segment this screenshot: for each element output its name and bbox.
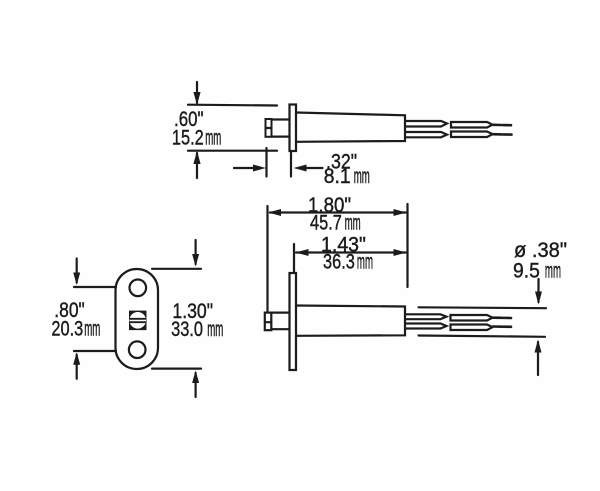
dim .60 bottom extension line bbox=[188, 150, 277, 152]
dim 1.30 down arrow bbox=[192, 240, 199, 267]
dim .32 left arrow bbox=[234, 165, 266, 172]
dim .32 right arrow bbox=[294, 165, 323, 172]
label 33.0mm bbox=[171, 317, 223, 341]
dim .32 right extension line bbox=[290, 152, 292, 177]
bottom view: wire 1 insulated segment 2 bbox=[451, 315, 493, 321]
top view: wire 1 insulated segment 1 bbox=[406, 121, 447, 127]
svg-text:mm: mm bbox=[354, 165, 370, 188]
label 8.1mm bbox=[324, 165, 370, 188]
dim .80 up arrow bbox=[73, 352, 80, 379]
svg-text:mm: mm bbox=[545, 260, 561, 283]
dim 1.80/1.43 right extension line bbox=[406, 204, 408, 287]
svg-text:36.3: 36.3 bbox=[323, 250, 355, 273]
top view: wire 2 insulated segment 2 bbox=[451, 132, 493, 138]
top view: wire 2 insulated segment 1 bbox=[406, 132, 447, 137]
svg-text:mm: mm bbox=[205, 127, 221, 150]
dim .32 left extension line bbox=[265, 148, 267, 177]
dim 1.80 left extension line bbox=[266, 206, 268, 311]
dim .80 bottom extension line bbox=[74, 350, 116, 352]
top view: flange bbox=[290, 105, 297, 152]
dim .60 up arrow bbox=[193, 151, 200, 178]
bottom view: flange bbox=[290, 273, 297, 370]
bottom view: nub end cap bbox=[265, 313, 272, 331]
top view: nub stem bbox=[272, 120, 290, 137]
label 36.3mm bbox=[323, 250, 373, 274]
top view: wire 1 bare tip bbox=[493, 124, 512, 127]
dim dia .38 up arrow bbox=[535, 340, 542, 376]
svg-text:9.5: 9.5 bbox=[513, 260, 540, 283]
front view: flange plate outline bbox=[116, 269, 159, 369]
label 9.5mm bbox=[513, 260, 561, 283]
bottom view: wire 1 bare tip bbox=[493, 316, 511, 319]
top view: body bbox=[296, 113, 405, 142]
svg-text:mm: mm bbox=[357, 251, 373, 274]
top view: nub end cap bbox=[266, 119, 272, 137]
bottom view: wire 1 insulated segment 1 bbox=[406, 314, 447, 319]
label 45.7mm bbox=[310, 211, 361, 235]
dim 1.43 left extension line bbox=[293, 244, 295, 272]
svg-text:20.3: 20.3 bbox=[51, 317, 83, 340]
top view: wire 1 insulated segment 2 bbox=[451, 122, 493, 128]
svg-text:45.7: 45.7 bbox=[310, 211, 342, 234]
bottom view: wire 2 insulated segment 2 bbox=[451, 325, 493, 331]
front view: center screw boss bbox=[129, 311, 147, 331]
top view: wire 2 bare tip bbox=[493, 133, 512, 136]
front view: top mounting hole bbox=[130, 280, 147, 297]
dim dia .38 bottom extension line bbox=[419, 336, 546, 337]
dim .60 top extension line bbox=[188, 104, 277, 107]
bottom view: wire 2 bare tip bbox=[493, 325, 511, 328]
front view: bottom mounting hole bbox=[129, 341, 146, 358]
dim dia .38 down arrow bbox=[535, 279, 542, 305]
label 20.3mm bbox=[51, 317, 100, 341]
dim 1.30 up arrow bbox=[192, 371, 199, 398]
svg-text:15.2: 15.2 bbox=[172, 126, 204, 149]
dim 1.30 bottom extension line bbox=[152, 368, 201, 370]
dim .80 down arrow bbox=[73, 259, 80, 286]
svg-text:mm: mm bbox=[84, 318, 100, 341]
svg-text:mm: mm bbox=[345, 212, 361, 235]
bottom view: body bbox=[296, 306, 405, 336]
svg-text:mm: mm bbox=[207, 318, 223, 341]
dim 1.80 dimension line with arrows bbox=[268, 209, 407, 216]
dim .80 top extension line bbox=[74, 286, 116, 288]
svg-text:8.1: 8.1 bbox=[324, 165, 351, 188]
bottom view: wire 2 insulated segment 1 bbox=[406, 324, 447, 329]
dim dia .38 top extension line bbox=[419, 306, 547, 309]
dim 1.43 dimension line with arrows bbox=[296, 249, 407, 256]
bottom view: nub stem bbox=[271, 313, 289, 330]
dim .60 down arrow bbox=[193, 82, 200, 105]
svg-text:33.0: 33.0 bbox=[171, 317, 203, 340]
dim 1.30 top extension line bbox=[152, 268, 201, 270]
label 15.2mm bbox=[172, 126, 221, 150]
